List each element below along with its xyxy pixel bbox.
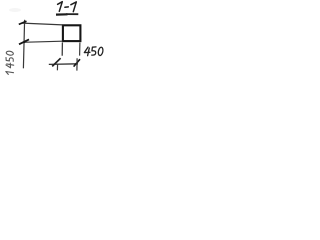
bottom extension line — [22, 41, 62, 42]
label 1450 (rotated) — [6, 51, 14, 75]
bottom dimension tick — [19, 39, 29, 44]
section title 1-1 — [58, 2, 77, 12]
bottom-left stub — [56, 64, 58, 71]
bottom-right tick — [74, 59, 80, 66]
label 450 — [84, 47, 103, 56]
vertical dimension line — [23, 20, 24, 69]
paper background — [0, 0, 114, 83]
bottom-right stub — [76, 58, 78, 70]
right lower extension line — [79, 43, 81, 56]
column section square — [63, 25, 81, 41]
bottom dimension line 450 — [49, 63, 78, 66]
top extension line — [22, 23, 62, 25]
bottom-left tick — [52, 58, 60, 66]
top dimension tick — [19, 21, 27, 24]
faint smudge top-left — [9, 8, 21, 12]
left lower extension line — [61, 43, 63, 56]
title underline — [56, 13, 68, 16]
